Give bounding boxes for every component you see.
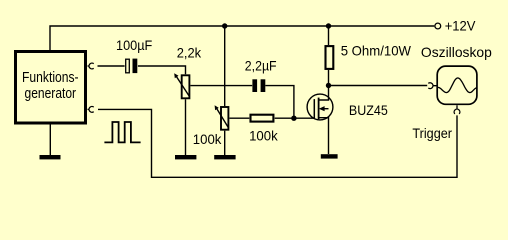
svg-text:100k: 100k [193,131,223,147]
svg-text:5 Ohm/10W: 5 Ohm/10W [341,43,412,59]
svg-text:+12V: +12V [445,18,476,34]
svg-text:generator: generator [25,85,77,102]
svg-text:Funktions-: Funktions- [22,69,79,86]
svg-text:BUZ45: BUZ45 [349,102,388,118]
svg-text:2,2µF: 2,2µF [245,57,277,73]
svg-text:2,2k: 2,2k [177,45,202,61]
svg-text:100k: 100k [249,127,279,143]
svg-text:100µF: 100µF [116,37,152,53]
svg-text:Trigger: Trigger [412,125,452,141]
svg-text:Oszilloskop: Oszilloskop [421,44,492,60]
